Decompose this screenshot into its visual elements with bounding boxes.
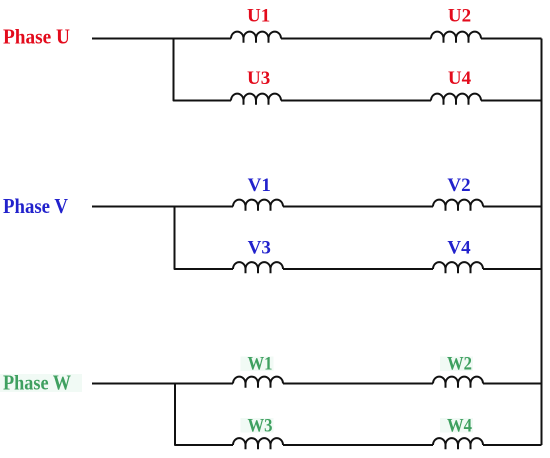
svg-text:U4: U4	[448, 68, 472, 89]
svg-text:U3: U3	[247, 68, 270, 89]
svg-text:W2: W2	[447, 354, 472, 375]
svg-text:Phase W: Phase W	[3, 371, 71, 395]
svg-text:U1: U1	[247, 6, 270, 27]
svg-text:V3: V3	[248, 238, 271, 259]
svg-text:W4: W4	[447, 416, 472, 437]
svg-text:Phase U: Phase U	[3, 25, 70, 49]
svg-text:V2: V2	[447, 175, 470, 196]
svg-text:Phase V: Phase V	[3, 194, 68, 218]
svg-text:V4: V4	[447, 238, 471, 259]
svg-text:W3: W3	[248, 416, 273, 437]
svg-text:V1: V1	[248, 175, 271, 196]
svg-text:U2: U2	[448, 6, 471, 27]
svg-text:W1: W1	[248, 354, 273, 375]
